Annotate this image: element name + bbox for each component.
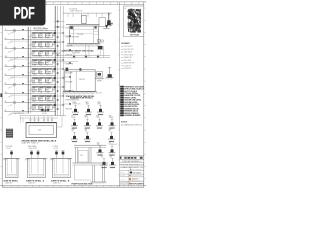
svg-text:VENT GV: VENT GV <box>66 108 73 110</box>
sump pit detail 1 pit <box>4 157 21 159</box>
svg-text:APP RD: APP RD <box>120 178 125 181</box>
svg-text:25Ø: 25Ø <box>84 129 88 131</box>
pipe pair valve glyphs <box>73 54 75 59</box>
svg-text:VENT PIPE: VENT PIPE <box>124 60 131 62</box>
large pit inner box <box>79 151 89 163</box>
sheet outer border top line <box>0 1 147 3</box>
svg-text:32Ø UP: 32Ø UP <box>8 50 14 54</box>
svg-text:PIPE: PIPE <box>39 99 42 101</box>
svg-text:CWS: CWS <box>32 46 35 48</box>
middle tank legs <box>70 71 72 91</box>
key plan dense building blob <box>128 9 141 33</box>
svg-text:32Ø: 32Ø <box>39 55 43 57</box>
svg-text:SUMP PIT DETAIL - A: SUMP PIT DETAIL - A <box>26 180 45 183</box>
riser floor 6 arrow mark <box>22 74 24 75</box>
svg-text:7F: 7F <box>5 29 7 31</box>
PDF badge <box>0 0 46 26</box>
riser floor level line 3 <box>5 48 57 50</box>
roof pump glyph <box>108 13 110 21</box>
svg-text:FFL 40Ø: FFL 40Ø <box>77 34 84 36</box>
bottom grid ticks <box>3 185 5 187</box>
svg-text:TANK: TANK <box>97 101 101 104</box>
riser bundle upper ticks <box>54 21 65 23</box>
svg-text:DN UP: DN UP <box>54 148 58 150</box>
riser floor 3 label boxes <box>32 41 38 47</box>
svg-text:PUMP ROOM SECTION: PUMP ROOM SECTION <box>72 183 93 185</box>
riser floor level line 5 <box>5 66 57 68</box>
svg-text:PUMP: PUMP <box>46 36 50 38</box>
elevated tank outer rectangle <box>70 26 99 44</box>
right border line <box>143 2 145 187</box>
svg-text:32Ø: 32Ø <box>32 52 36 54</box>
bottom border double line <box>0 184 147 186</box>
riser floor 10 arrow mark <box>22 110 24 111</box>
sump pit detail 3 pit <box>51 157 73 159</box>
elevated tank side pump boxes <box>98 40 101 43</box>
svg-text:FFL SUMP: FFL SUMP <box>6 146 13 148</box>
svg-text:SUMP SUMP: SUMP SUMP <box>29 148 37 150</box>
svg-text:SERVICES LLC: SERVICES LLC <box>132 180 141 182</box>
svg-text:RISER: RISER <box>46 72 52 74</box>
svg-text:DN: DN <box>39 109 41 111</box>
svg-text:100Ø: 100Ø <box>32 97 37 99</box>
elevated tank inlet fitting <box>70 26 73 29</box>
riser floor level line 9 <box>5 102 57 104</box>
roof equipment box <box>99 18 106 27</box>
svg-text:OVERFLOW: OVERFLOW <box>46 100 55 102</box>
riser floor 2 arrow mark <box>22 38 24 39</box>
svg-text:SUMP: SUMP <box>72 117 76 119</box>
large pit left leg <box>75 147 77 163</box>
svg-text:UP: UP <box>101 155 103 157</box>
svg-text:OVERFLOW: OVERFLOW <box>73 104 82 106</box>
ground tank right connection <box>57 126 63 128</box>
large pit right leg <box>88 147 90 163</box>
svg-text:100Ø: 100Ø <box>46 106 51 108</box>
title block row with dark glyph <box>130 172 132 174</box>
svg-text:DN: DN <box>32 109 34 111</box>
svg-text:GROUND WATER TANK DETAIL-SEC A: GROUND WATER TANK DETAIL-SEC A <box>22 139 57 142</box>
title block drawing number cell <box>120 182 144 184</box>
svg-text:VENT: VENT <box>71 129 75 131</box>
svg-text:NOTES:: NOTES: <box>121 122 128 124</box>
elevated tank inner partition lines <box>73 26 75 44</box>
svg-text:25Ø DN: 25Ø DN <box>79 79 86 81</box>
svg-text:3F: 3F <box>5 74 7 76</box>
riser floor 9 arrow mark <box>22 101 24 102</box>
svg-text:WATER METER: WATER METER <box>124 62 134 65</box>
svg-text:25Ø: 25Ø <box>80 155 84 157</box>
svg-text:VENT: VENT <box>46 91 50 93</box>
svg-text:CWS: CWS <box>32 36 36 38</box>
ground tank inner rectangle <box>29 126 54 135</box>
svg-text:UP: UP <box>109 131 111 133</box>
svg-text:DRAIN PIPE: DRAIN PIPE <box>124 56 132 59</box>
svg-text:4F: 4F <box>5 38 7 40</box>
standalone pump on pedestal right side <box>109 67 111 74</box>
svg-text:11F: 11F <box>5 92 8 94</box>
svg-text:FLOAT SW.: FLOAT SW. <box>124 64 132 67</box>
large pit left wall down <box>74 165 76 180</box>
svg-text:40Ø CWS: 40Ø CWS <box>96 93 102 95</box>
svg-text:DN: DN <box>109 142 111 144</box>
elevated tank lower pump blob <box>98 46 103 49</box>
riser floor 3 arrow mark <box>22 47 24 48</box>
svg-text:PIPE: PIPE <box>46 37 49 39</box>
large pit base floor <box>91 181 107 183</box>
riser floor 3 branch lines <box>28 44 32 46</box>
svg-text:RISER: RISER <box>97 81 103 83</box>
riser floor 8 branch lines <box>28 89 32 91</box>
riser floor level line 8 <box>5 93 57 95</box>
abbreviations dense text block <box>120 86 124 88</box>
riser floor 5 arrow mark <box>22 65 24 66</box>
riser floor 1 valve symbol <box>13 29 16 32</box>
svg-text:UP: UP <box>71 115 73 117</box>
svg-text:10F: 10F <box>5 56 8 58</box>
svg-text:GATE VALVE: GATE VALVE <box>124 51 132 54</box>
riser floor 5 label boxes <box>32 59 38 65</box>
ground tank outer rectangle <box>26 123 57 138</box>
riser floor 9 valve symbol <box>13 101 16 104</box>
svg-text:12F: 12F <box>5 65 8 67</box>
svg-text:FFL: FFL <box>46 90 49 92</box>
riser floor 1 arrow mark <box>22 29 24 30</box>
svg-text:PUMP OVERFLOW: PUMP OVERFLOW <box>70 11 83 13</box>
svg-text:DRN AK: DRN AK <box>120 170 125 173</box>
riser floor 10 branch lines <box>28 107 32 109</box>
svg-text:PDF: PDF <box>14 3 35 22</box>
svg-text:SUMP DRAIN: SUMP DRAIN <box>28 145 37 148</box>
large pit base walls <box>91 165 93 182</box>
riser floor 10 label boxes <box>32 104 38 110</box>
svg-text:DRAWING NUMBER: DRAWING NUMBER <box>124 114 141 117</box>
svg-text:GV: GV <box>124 8 126 10</box>
svg-text:OVERFLOW: OVERFLOW <box>109 144 118 146</box>
svg-text:FFL: FFL <box>46 63 49 65</box>
ground tank supply pipe lines <box>20 115 67 117</box>
riser secondary vertical pipe <box>30 27 32 114</box>
title block small mark row <box>129 175 130 176</box>
riser floor 5 valve symbol <box>13 65 16 68</box>
horizontal pipe pair below elevated tank <box>56 54 110 56</box>
svg-text:HWS RETURN: HWS RETURN <box>124 49 133 51</box>
svg-text:CWS PIPE: CWS PIPE <box>8 85 16 89</box>
svg-text:80Ø: 80Ø <box>39 34 43 36</box>
riser floor 2 branch lines <box>28 35 32 37</box>
riser floor 4 arrow mark <box>22 56 24 57</box>
short pipe line below <box>56 61 78 63</box>
svg-text:BOOSTER PUMP DETAILS: BOOSTER PUMP DETAILS <box>70 96 93 99</box>
svg-text:80Ø: 80Ø <box>96 115 100 117</box>
svg-text:FFL: FFL <box>101 157 104 159</box>
legend items list <box>121 46 123 48</box>
middle tank inlet fittings <box>66 68 69 71</box>
side equipment box next to middle tank <box>96 72 102 77</box>
sump pit detail 2 pit <box>26 157 48 159</box>
middle tank outer rectangle <box>65 70 95 92</box>
svg-text:32Ø: 32Ø <box>32 88 36 90</box>
riser pipe bundle vertical lines <box>54 6 56 116</box>
key plan outline inside <box>128 9 140 31</box>
svg-text:OVERFLOW PUMP: OVERFLOW PUMP <box>66 36 79 38</box>
title block bottom section line <box>120 180 144 182</box>
svg-text:CWS SUPPLY: CWS SUPPLY <box>124 46 133 48</box>
svg-text:SUMP: SUMP <box>32 70 36 72</box>
svg-text:100Ø: 100Ø <box>32 43 37 45</box>
svg-text:PIPE: PIPE <box>97 117 100 119</box>
svg-text:40Ø 80Ø: 40Ø 80Ø <box>8 67 15 71</box>
svg-text:50Ø: 50Ø <box>97 142 101 144</box>
svg-text:12F: 12F <box>5 47 8 49</box>
svg-text:M.73 V.73 1.47mm: M.73 V.73 1.47mm <box>34 27 49 30</box>
svg-text:PUMP: PUMP <box>32 64 36 66</box>
svg-text:CHECK VALVE: CHECK VALVE <box>124 53 134 56</box>
elevated tank base hatch <box>67 44 68 47</box>
middle tank top double line <box>65 70 95 72</box>
sheet inner border top line with grid ticks <box>2 4 144 6</box>
riser bundle valve ticks <box>54 32 65 34</box>
svg-text:CWS: CWS <box>46 46 49 48</box>
svg-text:CV: CV <box>32 54 34 56</box>
riser left drop pipe <box>14 31 16 112</box>
pipe drop to pump room <box>102 46 104 58</box>
svg-text:25Ø: 25Ø <box>39 61 43 63</box>
top right triangle pump glyph <box>105 25 108 28</box>
svg-text:CV: CV <box>32 91 34 93</box>
elevated tank platform line <box>66 24 100 26</box>
title block revision row <box>120 158 144 160</box>
svg-text:PIPE: PIPE <box>39 73 42 75</box>
riser bundle right connectors <box>63 35 70 37</box>
svg-text:CONSULTANT ENGINEERS CO: CONSULTANT ENGINEERS CO <box>122 160 142 163</box>
left border grid letter marker <box>0 94 2 98</box>
svg-text:DN TANK: DN TANK <box>7 31 14 36</box>
svg-text:32Ø: 32Ø <box>39 45 43 47</box>
roof small tank box <box>82 15 86 23</box>
right panel divider line <box>119 2 121 187</box>
svg-text:SUMP PIT DETAIL - B: SUMP PIT DETAIL - B <box>51 180 70 183</box>
title block small orange logo upper <box>130 169 131 170</box>
svg-text:RISER: RISER <box>32 37 36 39</box>
svg-text:AQUA ENG: AQUA ENG <box>132 177 139 180</box>
svg-text:40Ø: 40Ø <box>39 72 43 74</box>
svg-text:UP: UP <box>46 70 48 72</box>
title block top line <box>120 155 144 157</box>
riser floor 7 arrow mark <box>22 83 24 84</box>
svg-text:25Ø: 25Ø <box>32 72 36 74</box>
svg-text:32Ø: 32Ø <box>32 81 36 83</box>
title block consultant name row <box>120 162 144 164</box>
roof pipe stubs <box>67 13 69 17</box>
svg-text:PIPE: PIPE <box>39 37 42 39</box>
svg-text:SUMP: SUMP <box>32 61 36 63</box>
elevated tank water line <box>70 32 93 34</box>
tank outlet drops <box>85 44 87 56</box>
svg-text:LEGEND: LEGEND <box>121 43 130 45</box>
svg-text:CV DN: CV DN <box>8 104 13 107</box>
svg-text:100Ø: 100Ø <box>32 108 37 110</box>
svg-text:80Ø: 80Ø <box>109 115 113 117</box>
svg-text:SUMP: SUMP <box>39 97 43 99</box>
svg-text:32Ø: 32Ø <box>109 26 113 28</box>
ground tank pipe drops <box>30 116 32 123</box>
left border line <box>1 2 3 187</box>
svg-text:PROPOSED RESIDENTIAL BLDG: PROPOSED RESIDENTIAL BLDG <box>120 163 144 166</box>
svg-text:PIPE: PIPE <box>39 106 42 108</box>
svg-text:FFL: FFL <box>39 81 42 83</box>
riser floor 6 label boxes <box>32 68 38 74</box>
svg-text:SCALE AS SHOWN: SCALE AS SHOWN <box>120 181 131 184</box>
svg-text:CWS: CWS <box>108 129 111 131</box>
svg-text:TANK: TANK <box>85 101 89 104</box>
riser floor 5 branch lines <box>28 62 32 64</box>
right border grid ticks <box>144 7 146 9</box>
riser floor 8 arrow mark <box>22 92 24 93</box>
svg-text:40Ø: 40Ø <box>38 130 42 132</box>
svg-text:ALL DIMENSIONS IN MM U.N.O.: ALL DIMENSIONS IN MM U.N.O. <box>121 123 143 126</box>
svg-text:VENT: VENT <box>39 100 43 102</box>
svg-text:32Ø: 32Ø <box>32 45 36 47</box>
svg-text:32Ø: 32Ø <box>46 52 50 54</box>
svg-text:SUMP: SUMP <box>46 79 50 81</box>
riser floor level line 1 <box>5 30 57 32</box>
svg-text:DN SUMP: DN SUMP <box>66 72 73 74</box>
svg-text:9F: 9F <box>5 101 7 103</box>
svg-text:CV: CV <box>39 70 41 72</box>
riser floor 3 valve symbol <box>13 47 16 50</box>
svg-text:ELEVATED WATER TANK DETAIL: ELEVATED WATER TANK DETAIL <box>64 49 95 52</box>
svg-text:32Ø: 32Ø <box>46 81 50 83</box>
left border grid ticks <box>0 7 2 9</box>
title block left column divider <box>127 171 129 188</box>
riser floor level line 7 <box>5 84 57 86</box>
svg-text:KEY PLAN: KEY PLAN <box>130 33 139 36</box>
riser floor level line 4 <box>5 57 57 59</box>
svg-text:PUMP UNIT: PUMP UNIT <box>124 68 132 70</box>
ground tank ladder block <box>6 129 13 137</box>
key plan box <box>124 6 144 37</box>
svg-text:PLUMBING WATER SUPPLY DTLS: PLUMBING WATER SUPPLY DTLS <box>120 166 143 169</box>
riser floor 2 label boxes <box>32 32 38 38</box>
svg-text:PUMP: PUMP <box>46 34 50 36</box>
ground tank left drop pipes <box>20 116 22 123</box>
svg-text:UP UP: UP UP <box>7 148 11 150</box>
riser floor level line 6 <box>5 75 57 77</box>
svg-text:40Ø TANK DN: 40Ø TANK DN <box>14 112 24 115</box>
riser floor level line 10 <box>5 111 57 113</box>
svg-text:UP: UP <box>39 54 41 56</box>
svg-text:FFL: FFL <box>46 55 49 57</box>
large pit floor hatch <box>90 182 93 184</box>
svg-text:OVERFLOW UP: OVERFLOW UP <box>8 57 19 63</box>
svg-text:FFL: FFL <box>39 90 42 92</box>
svg-text:32Ø: 32Ø <box>32 34 36 36</box>
riser floor 9 label boxes <box>32 95 38 101</box>
right panel inner ticks <box>118 9 120 11</box>
svg-text:CWS: CWS <box>39 36 43 38</box>
large pit mid lines <box>73 162 109 164</box>
svg-text:SUMP PIT DETAIL: SUMP PIT DETAIL <box>4 180 18 183</box>
large pit top double line <box>74 144 106 146</box>
riser floor 6 branch lines <box>28 71 32 73</box>
svg-text:UP: UP <box>72 131 74 133</box>
riser floor 7 label boxes <box>32 77 38 83</box>
svg-text:100Ø: 100Ø <box>46 45 51 47</box>
top grid tick marks <box>3 2 5 5</box>
svg-text:UP FFL: UP FFL <box>8 41 14 45</box>
roof pipe header line <box>63 12 112 14</box>
riser floor level line 2 <box>5 39 57 41</box>
svg-text:VENT: VENT <box>39 52 43 54</box>
middle tank base hatch <box>62 92 63 95</box>
svg-text:6F: 6F <box>5 83 7 85</box>
svg-text:8F: 8F <box>5 110 7 112</box>
riser floor 4 branch lines <box>28 53 32 55</box>
title block orange company logo <box>129 178 131 181</box>
svg-text:25Ø: 25Ø <box>39 79 43 81</box>
svg-text:CV: CV <box>46 64 48 66</box>
svg-text:CWS: CWS <box>46 43 50 45</box>
svg-text:CHK MS: CHK MS <box>120 175 125 177</box>
svg-text:GV SUMP: GV SUMP <box>66 81 73 83</box>
svg-text:CV 50Ø DN: CV 50Ø DN <box>69 9 77 11</box>
riser main vertical pipe <box>27 27 29 114</box>
svg-text:32Ø: 32Ø <box>39 43 43 45</box>
svg-text:CWS CV: CWS CV <box>8 95 14 99</box>
riser floor 9 branch lines <box>28 98 32 100</box>
svg-text:GV FFL: GV FFL <box>42 113 47 115</box>
svg-text:80Ø: 80Ø <box>46 54 50 56</box>
riser floor 7 branch lines <box>28 80 32 82</box>
riser floor 7 valve symbol <box>13 83 16 86</box>
riser floor 4 label boxes <box>32 50 38 56</box>
riser floor 8 label boxes <box>32 86 38 92</box>
svg-text:PUMP: PUMP <box>46 73 50 75</box>
svg-text:CV PIPE: CV PIPE <box>53 146 59 148</box>
